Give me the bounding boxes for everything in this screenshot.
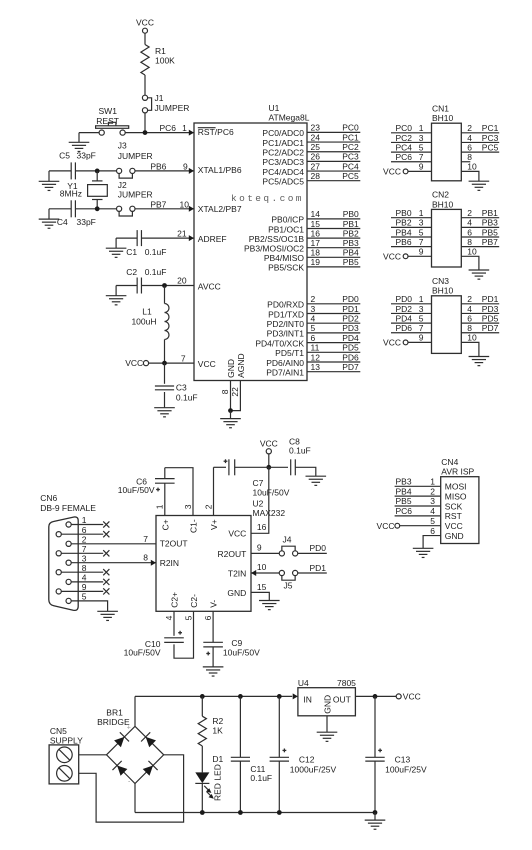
svg-text:4: 4 <box>311 314 316 324</box>
svg-text:2: 2 <box>467 294 472 304</box>
svg-text:PC2: PC2 <box>342 142 359 152</box>
svg-text:10: 10 <box>180 199 190 209</box>
BR1 diode upper-right <box>146 737 156 747</box>
pin arrow U4 IN <box>293 693 298 699</box>
svg-text:9: 9 <box>183 161 188 171</box>
svg-text:10uF/50V: 10uF/50V <box>124 648 161 658</box>
U2 pin 2 V+ <box>213 467 215 515</box>
wire C10 to pin5 <box>174 611 194 658</box>
svg-text:PD0: PD0 <box>310 543 327 553</box>
svg-text:24: 24 <box>311 132 321 142</box>
svg-text:PC0/ADC0: PC0/ADC0 <box>262 128 304 138</box>
svg-text:PB3: PB3 <box>343 238 359 248</box>
svg-text:PB5/SCK: PB5/SCK <box>268 263 304 273</box>
svg-text:PB0/ICP: PB0/ICP <box>271 215 304 225</box>
U1 pin 26 PC3 <box>307 160 360 162</box>
svg-text:U2: U2 <box>253 498 264 508</box>
svg-text:1: 1 <box>82 515 87 525</box>
svg-text:R2: R2 <box>212 716 223 726</box>
node C13 top <box>373 694 378 699</box>
svg-text:PC0: PC0 <box>342 123 359 133</box>
node AVCC junction <box>162 283 167 288</box>
svg-text:23: 23 <box>311 123 321 133</box>
svg-text:C7: C7 <box>253 478 264 488</box>
svg-text:C13: C13 <box>395 754 411 764</box>
svg-text:C5: C5 <box>59 151 70 161</box>
wire <box>230 411 232 419</box>
node XTAL1 junction <box>95 169 100 174</box>
svg-text:6: 6 <box>82 525 87 535</box>
CN3 pin 7 net PD6 <box>391 332 432 334</box>
svg-text:7: 7 <box>143 534 148 544</box>
svg-text:OUT: OUT <box>333 694 351 704</box>
svg-text:33pF: 33pF <box>77 217 96 227</box>
CN2 pin 5 net PB4 <box>391 236 432 238</box>
BR1 diode upper-left <box>114 737 124 747</box>
wire <box>48 209 50 219</box>
svg-text:IN: IN <box>303 694 312 704</box>
svg-text:8: 8 <box>143 553 148 563</box>
svg-text:VCC: VCC <box>383 167 401 177</box>
svg-text:7: 7 <box>419 237 424 247</box>
U2 pin 6 V- <box>212 611 214 642</box>
svg-text:PD2/INT0: PD2/INT0 <box>267 319 305 329</box>
svg-text:27: 27 <box>311 161 321 171</box>
svg-text:CN3: CN3 <box>432 276 449 286</box>
CN3 pin 4 net PD3 <box>461 312 499 314</box>
capacitor C8 0.1uF <box>269 466 288 468</box>
ground <box>469 357 490 366</box>
CN6 pin 6 <box>59 533 103 535</box>
U1 pin 8 GND <box>230 381 232 411</box>
CN6 pin 4 <box>69 581 104 583</box>
CN2 pin 8 net PB7 <box>461 246 499 248</box>
svg-text:6: 6 <box>203 615 213 620</box>
ground <box>306 476 327 485</box>
CN2 pin 4 net PB3 <box>461 226 499 228</box>
CN3 pin 10 to ground <box>461 342 479 356</box>
BR1 diode lower-right <box>143 765 153 775</box>
U4 GND pin to ground <box>326 716 328 732</box>
svg-text:PC5: PC5 <box>342 171 359 181</box>
ground <box>203 667 224 676</box>
svg-text:MAX232: MAX232 <box>253 508 286 518</box>
svg-text:10: 10 <box>257 562 267 572</box>
svg-text:PB2: PB2 <box>396 218 412 228</box>
capacitor C13 100uF/25V <box>374 696 376 757</box>
svg-text:XTAL2/PB7: XTAL2/PB7 <box>198 204 242 214</box>
CN1 pin 7 net PC6 <box>391 161 432 163</box>
svg-text:PB7: PB7 <box>150 199 166 209</box>
wire PC6 to U1 pin 1 <box>125 132 194 134</box>
svg-text:2: 2 <box>467 208 472 218</box>
svg-text:C3: C3 <box>176 382 187 392</box>
svg-text:JUMPER: JUMPER <box>118 189 153 199</box>
U1 pin 13 PD7 <box>307 371 360 373</box>
svg-text:SCK: SCK <box>445 501 463 511</box>
svg-text:3: 3 <box>430 496 435 506</box>
svg-text:PD1/TXD: PD1/TXD <box>268 309 304 319</box>
svg-text:2: 2 <box>82 534 87 544</box>
svg-text:PD3: PD3 <box>482 304 499 314</box>
node VCC junction <box>266 465 271 470</box>
svg-text:16: 16 <box>257 522 267 532</box>
svg-text:6: 6 <box>311 333 316 343</box>
jumper J4 <box>282 546 295 551</box>
U2 pin 4 C2+ <box>173 611 175 636</box>
svg-text:RST/PC6: RST/PC6 <box>198 127 234 137</box>
svg-text:PD0: PD0 <box>396 294 413 304</box>
CN6 pin 5 <box>69 601 108 611</box>
svg-text:7805: 7805 <box>337 678 356 688</box>
CN2 pin 2 net PB1 <box>461 217 499 219</box>
svg-text:VCC: VCC <box>136 17 154 27</box>
ground <box>469 270 490 279</box>
svg-text:7: 7 <box>181 353 186 363</box>
svg-text:+: + <box>127 724 131 731</box>
wire top rail <box>135 695 292 697</box>
CN3 pin 2 net PD1 <box>461 303 499 305</box>
U1 pin 11 PD5 <box>307 351 360 353</box>
svg-text:VCC: VCC <box>383 251 401 261</box>
svg-text:J5: J5 <box>284 581 293 591</box>
svg-text:6: 6 <box>467 313 472 323</box>
svg-text:BRIDGE: BRIDGE <box>97 717 130 727</box>
svg-text:19: 19 <box>311 257 321 267</box>
svg-text:C12: C12 <box>299 754 315 764</box>
CN4 pin 3 SCK <box>395 505 441 507</box>
svg-text:DB-9 FEMALE: DB-9 FEMALE <box>40 503 96 513</box>
svg-text:17: 17 <box>311 238 321 248</box>
svg-text:20: 20 <box>177 276 187 286</box>
svg-text:PC1: PC1 <box>342 132 359 142</box>
svg-text:PD3: PD3 <box>342 323 359 333</box>
CN4 pin 6 GND <box>423 536 441 548</box>
ground <box>413 548 434 557</box>
svg-text:8: 8 <box>82 563 87 573</box>
node XTAL2 junction <box>95 206 100 211</box>
U1 pin 14 PB0 <box>307 218 360 220</box>
capacitor C9 10uF/50V <box>203 641 223 643</box>
svg-text:1: 1 <box>155 504 165 509</box>
svg-text:PB5: PB5 <box>343 257 359 267</box>
pin arrow U1 pin9 <box>189 168 194 174</box>
svg-text:VCC: VCC <box>260 439 278 449</box>
crystal Y1 <box>96 171 98 181</box>
svg-text:PD1: PD1 <box>310 563 327 573</box>
CN1 pin 2 net PC1 <box>461 132 499 134</box>
wire <box>116 237 137 239</box>
svg-text:CN4: CN4 <box>441 457 458 467</box>
ground <box>39 181 60 190</box>
svg-text:1: 1 <box>419 208 424 218</box>
connector CN2 BH10 body <box>432 209 462 267</box>
capacitor C6 10uF/50V <box>155 478 175 480</box>
svg-text:MISO: MISO <box>445 491 467 501</box>
svg-text:10uF/50V: 10uF/50V <box>253 487 290 497</box>
ground <box>365 820 386 829</box>
svg-text:9: 9 <box>419 333 424 343</box>
svg-text:GND: GND <box>323 695 333 714</box>
IC U1 ATMega8L body <box>194 123 307 381</box>
svg-text:6: 6 <box>430 526 435 536</box>
node C11 top <box>238 694 243 699</box>
CN6 pin 1 <box>69 524 104 526</box>
pin arrow U1 pin21 <box>189 235 194 241</box>
wire <box>79 754 107 756</box>
svg-text:PB4: PB4 <box>396 227 412 237</box>
CN1 pin 1 net PC0 <box>391 132 432 134</box>
capacitor C11 0.1uF <box>239 696 241 757</box>
wire <box>49 208 71 210</box>
svg-text:PC4: PC4 <box>342 161 359 171</box>
CN1 pin 8 <box>461 161 470 163</box>
svg-text:PD1: PD1 <box>342 304 359 314</box>
svg-text:PB3: PB3 <box>482 218 498 228</box>
svg-text:PB4: PB4 <box>343 248 359 258</box>
U1 pin 12 PD6 <box>307 361 360 363</box>
svg-text:0.1uF: 0.1uF <box>289 445 311 455</box>
svg-text:BH10: BH10 <box>432 199 454 209</box>
CN3 pin 1 net PD0 <box>391 303 432 305</box>
CN6 pin 9 <box>59 590 103 592</box>
svg-text:PD7: PD7 <box>482 323 499 333</box>
svg-text:PC3/ADC3: PC3/ADC3 <box>262 157 304 167</box>
capacitor C1 <box>136 230 138 246</box>
svg-text:AGND: AGND <box>236 353 246 378</box>
svg-text:9: 9 <box>257 542 262 552</box>
capacitor C2 <box>136 278 138 294</box>
jumper J3 <box>119 173 132 178</box>
svg-text:PB1/OC1: PB1/OC1 <box>268 224 304 234</box>
svg-text:10uF/50V: 10uF/50V <box>223 647 260 657</box>
svg-text:100K: 100K <box>155 55 175 65</box>
svg-text:PD4/T0/XCK: PD4/T0/XCK <box>255 338 304 348</box>
wire <box>116 285 137 287</box>
svg-text:2: 2 <box>311 294 316 304</box>
svg-text:VCC: VCC <box>403 691 421 701</box>
CN2 pin 7 net PB6 <box>391 246 432 248</box>
svg-text:PB1: PB1 <box>482 208 498 218</box>
wire bridge - to rail <box>134 784 136 813</box>
svg-text:C2: C2 <box>126 267 137 277</box>
CN6 pin 8 <box>59 571 103 573</box>
svg-text:CN6: CN6 <box>40 493 57 503</box>
U1 pin 23 PC0 <box>307 131 360 133</box>
svg-text:U1: U1 <box>269 103 280 113</box>
svg-text:GND: GND <box>227 588 246 598</box>
svg-text:5: 5 <box>430 516 435 526</box>
svg-text:6: 6 <box>467 142 472 152</box>
ground <box>317 732 338 741</box>
svg-text:ATMega8L: ATMega8L <box>269 113 310 123</box>
svg-text:PD4: PD4 <box>342 333 359 343</box>
U1 pin 15 PB1 <box>307 228 360 230</box>
BR1 diode lower-left <box>117 765 127 775</box>
wire <box>48 171 50 181</box>
svg-text:U4: U4 <box>298 678 309 688</box>
svg-text:10: 10 <box>467 247 477 257</box>
svg-text:AVCC: AVCC <box>198 281 221 291</box>
svg-text:PD1: PD1 <box>482 294 499 304</box>
svg-text:21: 21 <box>177 229 187 239</box>
svg-text:PD2: PD2 <box>342 314 359 324</box>
svg-text:0.1uF: 0.1uF <box>145 267 167 277</box>
U2 pin 1 C+ <box>164 483 166 515</box>
svg-text:BH10: BH10 <box>432 286 454 296</box>
node C12 bottom <box>277 810 282 815</box>
svg-text:PC4/ADC4: PC4/ADC4 <box>262 167 304 177</box>
U1 pin 19 PB5 <box>307 266 360 268</box>
U1 pin 18 PB4 <box>307 256 360 258</box>
svg-text:GND: GND <box>445 531 464 541</box>
svg-text:C1: C1 <box>126 247 137 257</box>
svg-text:T2OUT: T2OUT <box>160 539 188 549</box>
wire AVCC to U1 pin 20 <box>142 285 195 287</box>
CN3 pin 5 net PD4 <box>391 322 432 324</box>
svg-text:PC4: PC4 <box>396 142 413 152</box>
svg-text:PB7: PB7 <box>482 237 498 247</box>
svg-text:PB6: PB6 <box>150 161 166 171</box>
svg-text:1K: 1K <box>212 726 223 736</box>
svg-text:100uF/25V: 100uF/25V <box>385 765 427 775</box>
svg-text:PB4: PB4 <box>396 486 412 496</box>
CN6 pin 3 <box>69 562 156 564</box>
U2 pin 9 wire to J4 <box>251 552 282 554</box>
wire AC2 loop <box>79 755 184 822</box>
capacitor C7 10uF/50V <box>214 466 227 468</box>
U2 pin 10 wire to J5 <box>251 572 282 574</box>
wire <box>144 113 146 133</box>
svg-text:0.1uF: 0.1uF <box>145 247 167 257</box>
CN4 pin 1 MOSI <box>395 485 441 487</box>
svg-text:5: 5 <box>183 615 193 620</box>
node C12 top <box>277 694 282 699</box>
svg-text:JUMPER: JUMPER <box>155 103 190 113</box>
svg-text:1000uF/25V: 1000uF/25V <box>290 765 337 775</box>
U1 pin 17 PB3 <box>307 247 360 249</box>
U1 pin 4 PD2 <box>307 322 360 324</box>
wire <box>75 170 116 172</box>
svg-text:PD5/T1: PD5/T1 <box>275 348 304 358</box>
svg-text:2: 2 <box>467 123 472 133</box>
svg-text:PD7: PD7 <box>342 362 359 372</box>
svg-text:4: 4 <box>164 615 174 620</box>
ground <box>97 611 118 620</box>
U1 pin 22 AGND <box>231 381 241 411</box>
svg-text:100uH: 100uH <box>131 316 156 326</box>
svg-text:PB3: PB3 <box>396 477 412 487</box>
svg-text:8: 8 <box>467 152 472 162</box>
svg-text:15: 15 <box>311 219 321 229</box>
svg-text:14: 14 <box>311 209 321 219</box>
svg-text:PB0: PB0 <box>343 209 359 219</box>
ground <box>106 296 127 305</box>
wire <box>374 813 376 820</box>
CN2 pin 10 to ground <box>461 256 479 270</box>
svg-text:CN5: CN5 <box>50 726 67 736</box>
svg-text:PD6: PD6 <box>396 323 413 333</box>
LED D1 <box>195 772 209 783</box>
svg-text:PB2/SS/OC1B: PB2/SS/OC1B <box>249 234 305 244</box>
U1 pin 3 PD1 <box>307 313 360 315</box>
svg-text:8: 8 <box>467 237 472 247</box>
node GND junction <box>228 408 233 413</box>
svg-text:11: 11 <box>311 343 320 353</box>
svg-text:PC6: PC6 <box>396 152 413 162</box>
pin arrow U1 pin1 <box>189 130 194 136</box>
svg-text:8MHz: 8MHz <box>60 188 82 198</box>
svg-text:PD6: PD6 <box>342 352 359 362</box>
U1 pin 16 PB2 <box>307 237 360 239</box>
svg-text:PD4: PD4 <box>396 313 413 323</box>
svg-text:4: 4 <box>430 506 435 516</box>
U1 pin 5 PD3 <box>307 332 360 334</box>
ground <box>154 408 175 417</box>
svg-text:PD2: PD2 <box>396 304 413 314</box>
svg-text:PC5/ADC5: PC5/ADC5 <box>262 177 304 187</box>
svg-text:PD7/AIN1: PD7/AIN1 <box>266 368 304 378</box>
svg-text:5: 5 <box>419 313 424 323</box>
svg-text:5: 5 <box>419 142 424 152</box>
svg-text:3: 3 <box>419 218 424 228</box>
ground <box>220 419 241 428</box>
svg-text:J3: J3 <box>118 141 127 151</box>
svg-text:R2IN: R2IN <box>160 558 179 568</box>
svg-text:1: 1 <box>430 477 435 487</box>
ground <box>469 181 490 190</box>
svg-text:SUPPLY: SUPPLY <box>50 736 83 746</box>
CN4 pin 4 RST <box>395 515 441 517</box>
svg-text:PB5: PB5 <box>482 227 498 237</box>
jumper J2 <box>119 211 132 216</box>
svg-text:9: 9 <box>419 162 424 172</box>
jumper J5 <box>282 575 295 580</box>
node VCC junction <box>162 361 167 366</box>
svg-text:10: 10 <box>467 333 477 343</box>
svg-text:0.1uF: 0.1uF <box>176 393 198 403</box>
svg-text:4: 4 <box>467 304 472 314</box>
svg-text:PB4/MISO: PB4/MISO <box>264 253 305 263</box>
svg-text:PB5: PB5 <box>396 496 412 506</box>
jumper J1 <box>147 98 151 111</box>
wire bridge + to rail <box>134 696 136 726</box>
wire net PD1 <box>298 572 327 574</box>
svg-text:PC2/ADC2: PC2/ADC2 <box>262 148 304 158</box>
connector CN1 BH10 body <box>432 123 462 181</box>
capacitor C4 <box>70 200 72 217</box>
U1 pin 27 PC4 <box>307 170 360 172</box>
svg-text:3: 3 <box>82 553 87 563</box>
svg-text:RED LED: RED LED <box>212 764 222 801</box>
capacitor C5 <box>70 162 72 179</box>
svg-text:GND: GND <box>226 359 236 378</box>
svg-text:CN2: CN2 <box>432 190 449 200</box>
svg-text:8: 8 <box>467 323 472 333</box>
svg-text:PC6: PC6 <box>396 506 413 516</box>
U1 pin 6 PD4 <box>307 342 360 344</box>
svg-text:R2OUT: R2OUT <box>217 549 246 559</box>
capacitor C3 <box>164 363 166 384</box>
svg-text:PC3: PC3 <box>482 133 499 143</box>
node C13 bottom <box>373 810 378 815</box>
CN1 pin 4 net PC3 <box>461 141 499 143</box>
capacitor C10 10uF/50V <box>164 637 184 639</box>
svg-text:7: 7 <box>419 323 424 333</box>
U2 pin 15 to ground <box>251 592 269 600</box>
wire <box>201 746 203 772</box>
resistor R2 <box>201 696 203 716</box>
